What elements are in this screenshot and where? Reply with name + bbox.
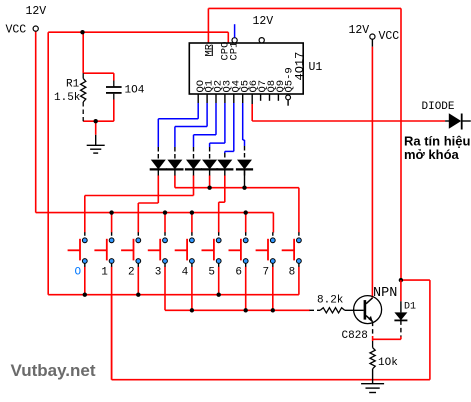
svg-text:4: 4 [182, 266, 189, 278]
svg-text:C828: C828 [342, 330, 368, 342]
svg-text:5: 5 [208, 266, 215, 278]
svg-text:1Ok: 1Ok [378, 357, 398, 369]
svg-text:8.2k: 8.2k [317, 295, 344, 307]
svg-text:1O4: 1O4 [125, 85, 145, 97]
svg-text:U1: U1 [309, 61, 323, 74]
svg-text:MR: MR [203, 43, 215, 56]
svg-text:7: 7 [262, 266, 269, 278]
svg-text:2: 2 [128, 266, 135, 278]
svg-text:4O17: 4O17 [293, 52, 307, 81]
svg-text:R1: R1 [66, 79, 80, 91]
svg-text:CP1: CP1 [228, 42, 240, 61]
svg-text:3: 3 [155, 266, 162, 278]
svg-text:6: 6 [235, 266, 242, 278]
svg-text:VCC: VCC [6, 24, 27, 37]
svg-text:12V: 12V [26, 5, 47, 18]
svg-text:mở khóa: mở khóa [404, 147, 460, 162]
svg-text:12V: 12V [349, 24, 370, 37]
svg-text:D1: D1 [404, 302, 416, 313]
svg-text:Vutbay.net: Vutbay.net [11, 361, 96, 380]
svg-text:VCC: VCC [379, 30, 400, 43]
svg-text:DIODE: DIODE [422, 101, 455, 113]
svg-text:NPN: NPN [373, 286, 397, 301]
svg-text:1: 1 [101, 266, 108, 278]
svg-text:1.5k: 1.5k [54, 92, 81, 104]
svg-text:12V: 12V [253, 15, 274, 28]
svg-text:O: O [74, 266, 81, 278]
svg-text:8: 8 [289, 266, 296, 278]
